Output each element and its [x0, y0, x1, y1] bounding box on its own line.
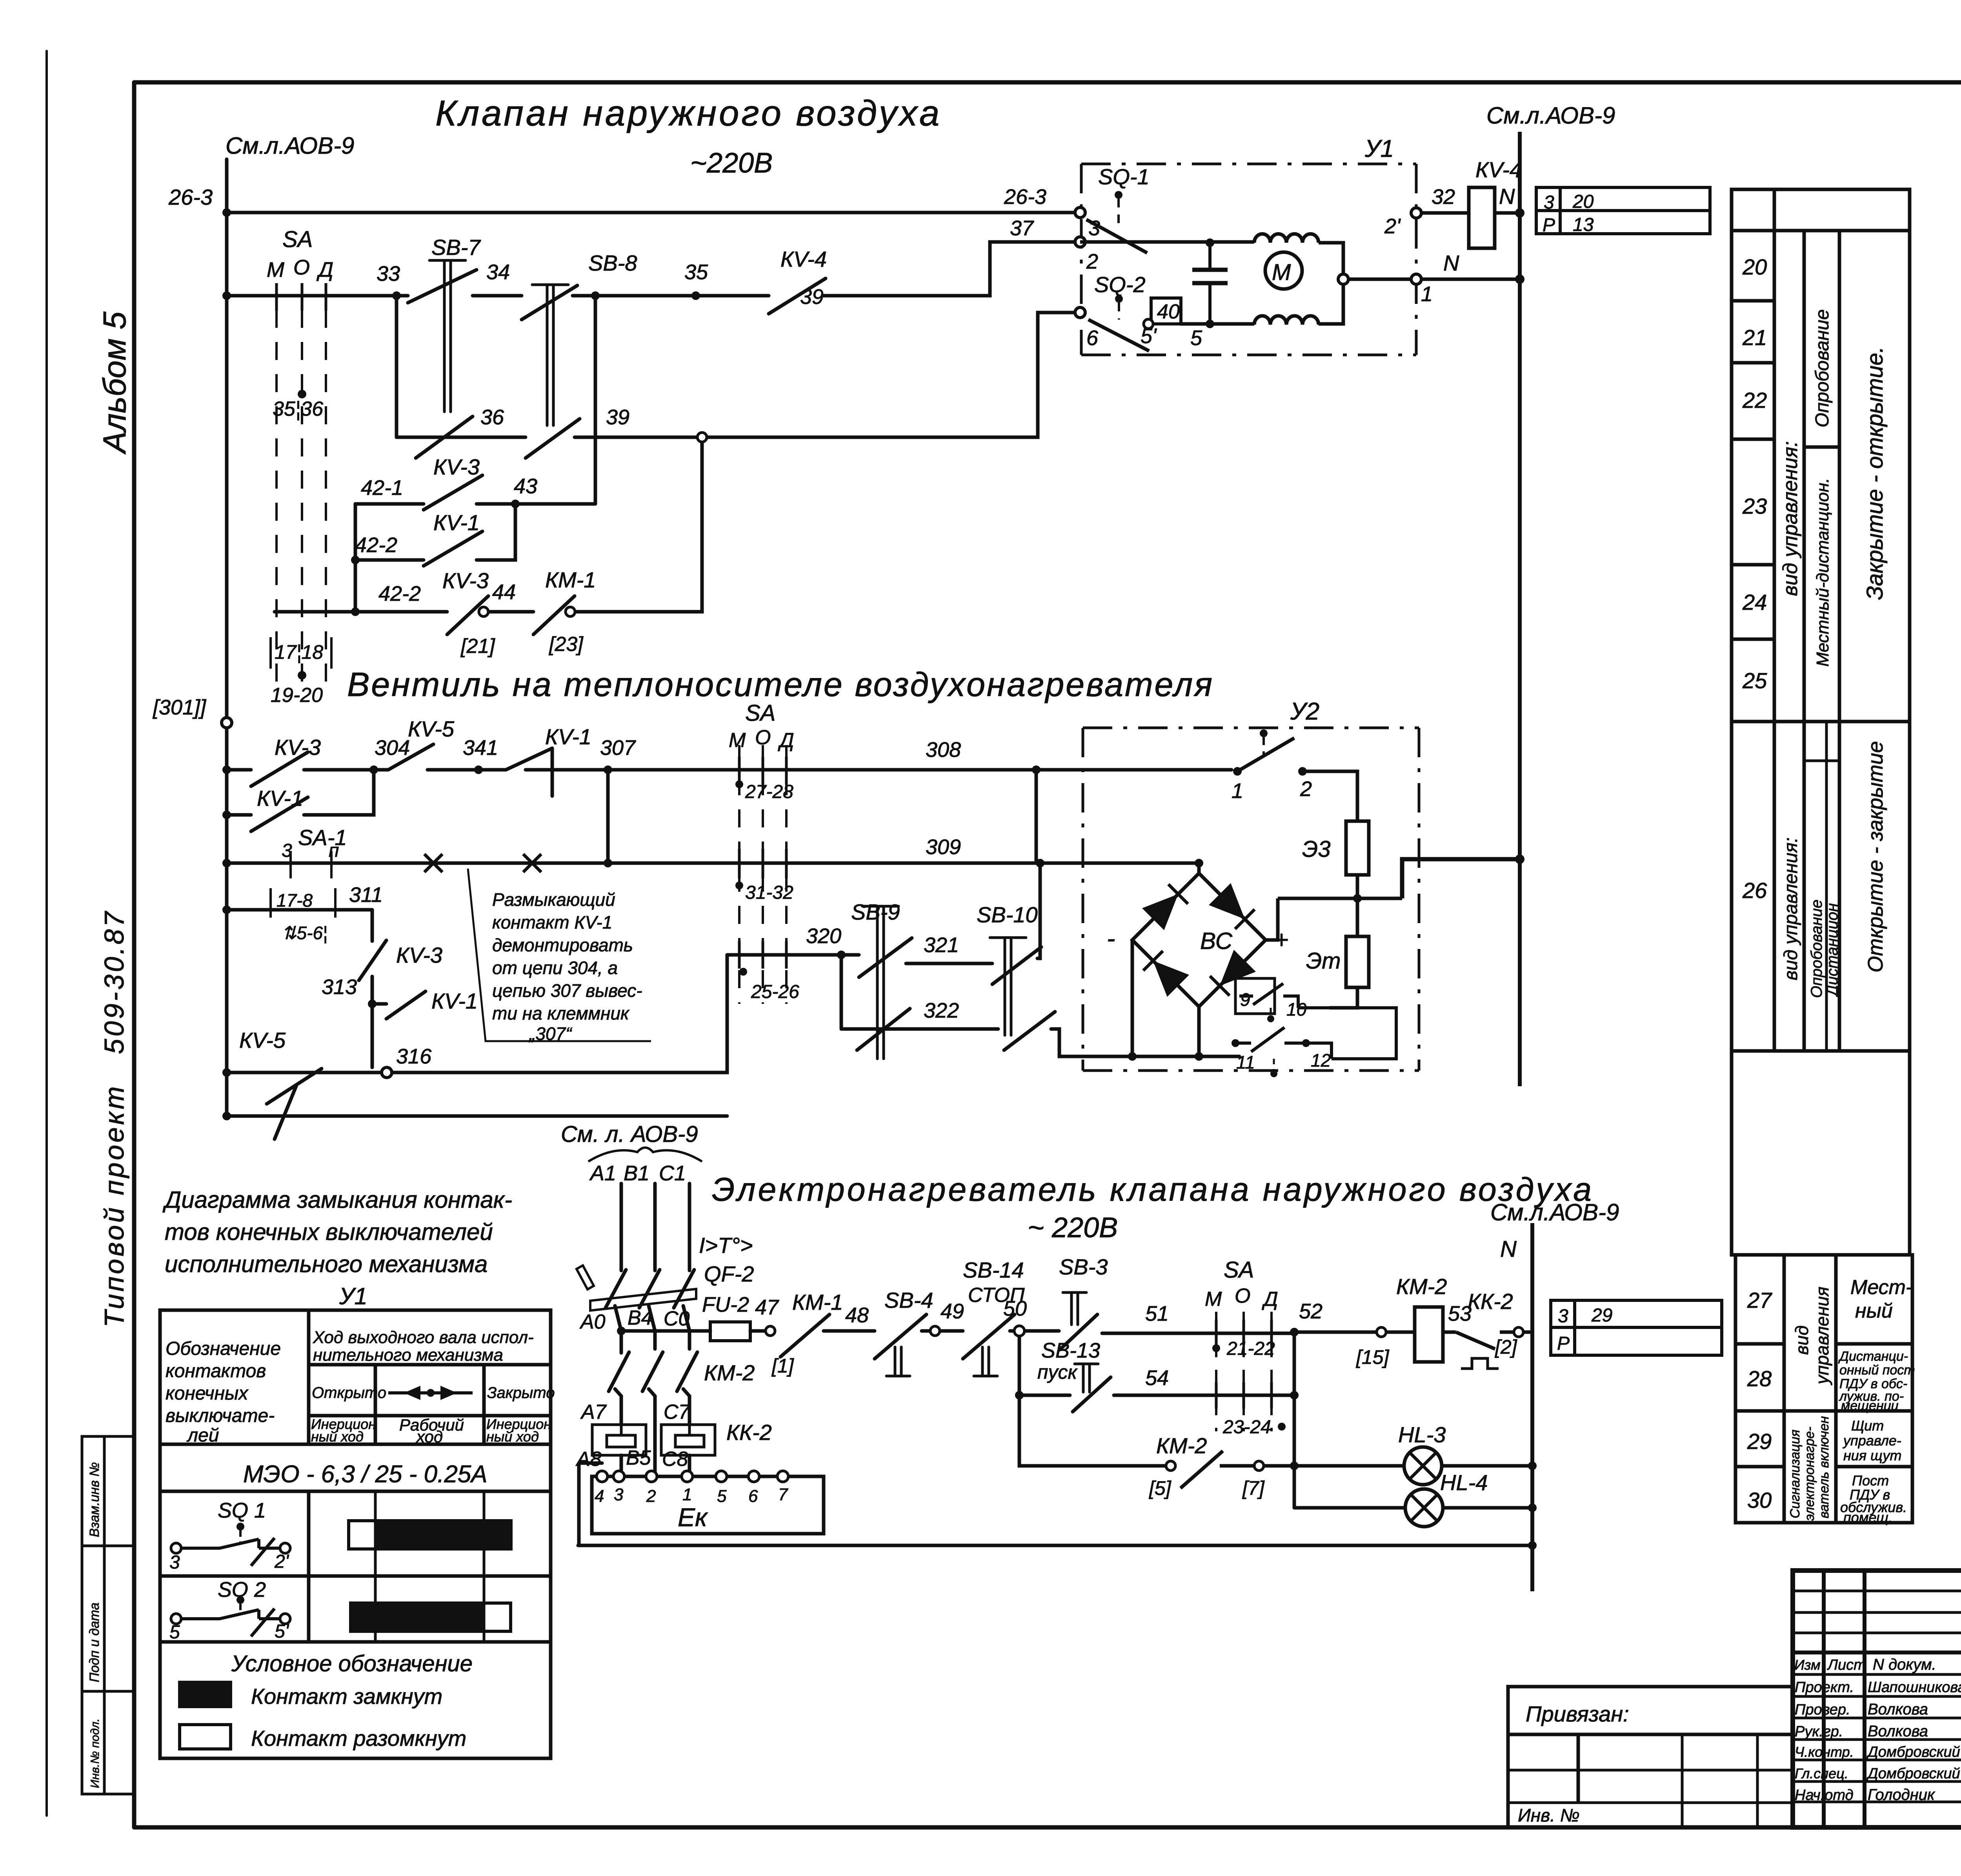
lamp HL-3 [1404, 1447, 1442, 1485]
band section 26 [1732, 722, 1910, 1051]
wire KM-2 coil row [1294, 1331, 1415, 1334]
svg-text:С8: С8 [662, 1448, 688, 1471]
heater box Ек [592, 1476, 824, 1534]
selector SA dashed column M [275, 310, 278, 686]
svg-text:исполнительного механизма: исполнительного механизма [165, 1251, 488, 1277]
sidebar stamp box Подп и дата [82, 1546, 104, 1691]
svg-text:С1: С1 [659, 1162, 686, 1185]
junction N/bottom wire [1528, 1541, 1537, 1550]
svg-text:17-8: 17-8 [277, 890, 313, 911]
svg-text:3: 3 [1088, 216, 1100, 240]
node 316 circle [382, 1067, 392, 1078]
lamp HL-4 [1405, 1489, 1443, 1527]
svg-text:КV-4: КV-4 [1475, 157, 1522, 182]
contact KV-1 branch [372, 991, 426, 1019]
bridge diode 2 [1209, 883, 1245, 919]
svg-text:Рук.гр.: Рук.гр. [1795, 1723, 1843, 1740]
svg-text:-: - [1107, 924, 1115, 953]
button SB-13 actuator [1075, 1364, 1098, 1392]
svg-text:42-2: 42-2 [355, 533, 397, 557]
svg-text:Взам.инв №: Взам.инв № [87, 1462, 102, 1537]
svg-text:304: 304 [375, 736, 410, 760]
button SB-4 actuator [886, 1347, 910, 1376]
wire bridge right vertex to junction row [1266, 898, 1278, 940]
svg-text:5': 5' [275, 1621, 289, 1642]
pole C heater to terminal [688, 1455, 691, 1471]
svg-text:52: 52 [1299, 1300, 1322, 1323]
svg-text:2: 2 [1086, 250, 1098, 273]
svg-text:25-26: 25-26 [751, 982, 799, 1002]
svg-text:HL-4: HL-4 [1440, 1470, 1488, 1495]
svg-text:12: 12 [1311, 1050, 1331, 1071]
svg-text:341: 341 [463, 736, 498, 760]
svg-text:30: 30 [1747, 1488, 1772, 1512]
svg-text:35: 35 [684, 260, 708, 284]
svg-text:321: 321 [924, 933, 959, 957]
svg-text:Электронагреватель клапана нар: Электронагреватель клапана наружного воз… [712, 1171, 1594, 1208]
legend open contact [180, 1725, 231, 1749]
wire row 316 [227, 1071, 382, 1074]
node 320 [837, 951, 846, 959]
wire node2 to Э3 [1302, 771, 1357, 821]
svg-text:от цепи 304, а: от цепи 304, а [492, 958, 618, 978]
wire row 42-2 / KV-1 [355, 558, 424, 562]
svg-text:21: 21 [1742, 325, 1767, 350]
wire 37 jog up [824, 242, 1075, 296]
svg-text:ватель включен: ватель включен [1817, 1416, 1832, 1518]
svg-text:Закрыто: Закрыто [487, 1384, 555, 1402]
contact SB-10 upper slash [992, 947, 1041, 984]
contact SB-4 slash [875, 1314, 926, 1359]
wire 51 [1102, 1332, 1294, 1335]
junction 52/54 [1290, 1391, 1299, 1400]
wire 39 long segment [575, 313, 1076, 437]
reference box 3-20 P-13 [1536, 187, 1710, 234]
pole A KM-2 to heater [615, 1389, 621, 1425]
svg-text:N: N [1443, 251, 1459, 275]
wire 34 segment [473, 294, 522, 298]
wire segment to node 35 [573, 294, 769, 298]
svg-text:N: N [1500, 1236, 1517, 1262]
svg-text:КV-5: КV-5 [408, 716, 455, 741]
wire row SA-1 / 309 [227, 862, 1199, 865]
svg-text:⇅5-6¦: ⇅5-6¦ [282, 923, 327, 943]
svg-text:лей: лей [186, 1425, 219, 1446]
wire to node 307 [526, 768, 608, 772]
svg-text:31-32: 31-32 [745, 882, 793, 903]
SA-1 tick marks [291, 851, 331, 878]
svg-text:Пост: Пост [1852, 1472, 1889, 1489]
contact KM-1 slash [533, 596, 575, 634]
riser 313 to 316 [371, 1004, 374, 1067]
svg-text:Эт: Эт [1306, 948, 1341, 974]
motor lower winding [1254, 316, 1319, 325]
svg-text:3: 3 [1544, 192, 1554, 213]
svg-text:3: 3 [614, 1485, 624, 1504]
contact У2 slash 1-2 [1237, 738, 1294, 771]
svg-text:Обозначение: Обозначение [166, 1338, 281, 1359]
note leader line [468, 869, 651, 1041]
svg-text:Размыкающий: Размыкающий [492, 889, 615, 910]
svg-text:2: 2 [646, 1487, 656, 1506]
svg-text:См.л.АОВ-9: См.л.АОВ-9 [1486, 102, 1615, 129]
svg-text:SB-9: SB-9 [851, 900, 900, 924]
wire 44 segment [488, 610, 533, 614]
contact SB-3 slash [1060, 1314, 1097, 1350]
svg-text:39: 39 [606, 405, 629, 429]
svg-text:27-28: 27-28 [745, 782, 793, 802]
contact KV-5 slash [388, 744, 433, 770]
contact SB-8 lower (NO) slash [526, 419, 580, 458]
bottom N wire [578, 1544, 1532, 1547]
svg-text:20: 20 [1742, 254, 1767, 279]
N bus (circuit 3) [1530, 1223, 1534, 1591]
svg-text:М: М [1272, 260, 1291, 285]
svg-text:4: 4 [595, 1487, 604, 1506]
breaker QF-2 tie bar [590, 1289, 696, 1311]
svg-text:2': 2' [1384, 215, 1401, 238]
terminal circle 15 [1377, 1327, 1386, 1337]
svg-text:См.л.АОВ-9: См.л.АОВ-9 [226, 133, 354, 159]
contact KM-1 slash (main row) [780, 1314, 830, 1357]
wire to node 304 [304, 768, 388, 772]
right bus См.л.АОВ-9 [1518, 132, 1522, 1086]
wire row 36-39 [397, 436, 526, 439]
svg-text:[23]: [23] [549, 633, 584, 656]
breaker QF-2 pole C slash [674, 1270, 694, 1308]
svg-text:29: 29 [1591, 1305, 1612, 1326]
junction dot Эт top [1353, 894, 1362, 903]
svg-text:3: 3 [169, 1552, 180, 1573]
svg-text:МЭО - 6,3 / 25 - 0.25А: МЭО - 6,3 / 25 - 0.25А [243, 1461, 488, 1488]
wire 320 drop to 322 [840, 955, 843, 1029]
wire 50 to SB-3 [1010, 1329, 1059, 1333]
svg-text:SB-8: SB-8 [588, 251, 637, 275]
svg-text:ный: ный [1855, 1300, 1893, 1322]
terminal circle 49 [930, 1326, 940, 1336]
junction bus/feeder [222, 1112, 231, 1120]
svg-text:6: 6 [748, 1487, 758, 1506]
svg-text:конечных: конечных [166, 1383, 249, 1404]
contact SB-13 slash [1073, 1377, 1111, 1412]
svg-text:КК-2: КК-2 [726, 1420, 772, 1445]
svg-text:21-22: 21-22 [1226, 1338, 1275, 1359]
svg-text:О: О [1235, 1285, 1250, 1307]
terminal circle 47 [766, 1326, 775, 1336]
svg-text:А8: А8 [575, 1448, 602, 1471]
svg-text:Клапан наружного воздуха: Клапан наружного воздуха [435, 93, 942, 133]
contactor KM-2 pole B slash [642, 1352, 663, 1391]
svg-text:Ход выходного вала испол-: Ход выходного вала испол- [313, 1328, 534, 1347]
wire 48 [824, 1329, 875, 1333]
row line 20/21 [1732, 299, 1774, 303]
node after SB-8 [591, 291, 600, 300]
terminal circle 5 [1166, 1461, 1175, 1471]
svg-text:HL-3: HL-3 [1398, 1422, 1446, 1447]
svg-text:27: 27 [1747, 1288, 1772, 1312]
svg-text:Инв.№ подл.: Инв.№ подл. [89, 1718, 102, 1788]
svg-text:320: 320 [806, 924, 841, 948]
junction A0 [617, 1327, 626, 1335]
svg-text:SB-14: SB-14 [963, 1258, 1024, 1282]
header row line [1793, 1651, 1961, 1654]
row line 22/23 [1732, 438, 1774, 441]
feeder pole A1 [620, 1183, 623, 1271]
wire KV-4 to bus [1495, 211, 1520, 215]
breaker QF-2 pole B slash [639, 1270, 660, 1308]
pole A down from main row [620, 1331, 623, 1353]
svg-text:контактов: контактов [166, 1361, 266, 1382]
svg-text:С7: С7 [664, 1401, 691, 1423]
brace over A1 B1 C1 [588, 1148, 702, 1162]
svg-text:Голодник: Голодник [1868, 1786, 1936, 1803]
svg-text:Ч.контр.: Ч.контр. [1795, 1744, 1854, 1760]
svg-text:выключате-: выключате- [166, 1405, 275, 1426]
svg-text:316: 316 [396, 1045, 432, 1068]
SQ2 state bar [351, 1603, 482, 1631]
button SB-7 actuator [429, 260, 466, 412]
svg-text:309: 309 [926, 835, 961, 859]
pole C down [683, 1306, 689, 1349]
contact KM-2 aux slash [1181, 1451, 1223, 1488]
svg-text:ход: ход [416, 1427, 443, 1446]
breaker QF-2 pole A slash [606, 1270, 626, 1308]
svg-text:6: 6 [1086, 326, 1099, 350]
svg-text:КV-3: КV-3 [433, 454, 480, 479]
sidebar stamp box Инв № подл [82, 1691, 104, 1794]
motor upper winding [1254, 234, 1319, 243]
bridge diode 1 [1142, 894, 1178, 930]
svg-text:КV-4: КV-4 [780, 247, 827, 271]
svg-text:Диаграмма замыкания контак-: Диаграмма замыкания контак- [162, 1187, 512, 1213]
junction 52/HL-3 [1290, 1462, 1299, 1470]
svg-text:307: 307 [600, 736, 636, 760]
svg-text:Альбом 5: Альбом 5 [97, 311, 133, 455]
svg-text:КV-1: КV-1 [431, 989, 478, 1013]
pole C KM-2 to heater [683, 1389, 689, 1425]
node 301 circle [222, 718, 232, 728]
header text Обозначение контактов конечных выключателей [166, 1338, 281, 1446]
junction N/HL-4 [1528, 1503, 1537, 1512]
terminal 4 hook [579, 1463, 602, 1545]
terminal circle 44 [479, 607, 488, 616]
contact SB-7 (NC) slash [408, 270, 477, 303]
svg-text:У2: У2 [1290, 698, 1319, 725]
row line 21/22 [1732, 361, 1774, 365]
button SB-14 actuator [974, 1347, 997, 1376]
wire 316 to corner [392, 955, 727, 1073]
contact KK-2 thermal [1443, 1332, 1514, 1349]
svg-text:вид управления:: вид управления: [1781, 837, 1801, 980]
wire row 2 to motor winding [1080, 240, 1254, 244]
demount X mark 1 [424, 854, 442, 872]
button SB-8 actuator [532, 285, 568, 425]
junction dot bus at 543 [1515, 208, 1524, 218]
node 304 [369, 765, 378, 774]
svg-text:SB-3: SB-3 [1059, 1254, 1108, 1279]
svg-text:Провер.: Провер. [1795, 1701, 1850, 1718]
contactor KM-2 pole A slash [609, 1352, 629, 1391]
svg-text:ния щут: ния щут [1843, 1447, 1901, 1463]
pole B down [649, 1306, 655, 1349]
box 40 [1151, 298, 1181, 324]
node 341 [474, 765, 483, 774]
svg-text:QF-2: QF-2 [704, 1262, 754, 1286]
motor terminal circle [1338, 274, 1348, 284]
svg-text:22: 22 [1742, 388, 1767, 413]
wire to riser 1790 [575, 442, 702, 612]
svg-text:3: 3 [1558, 1306, 1568, 1327]
heater KK-2 element A [592, 1425, 646, 1455]
svg-text:В5: В5 [626, 1447, 651, 1469]
relay coil KV-4 [1469, 187, 1495, 248]
svg-text:19-20: 19-20 [271, 684, 323, 707]
node circle 39 riser top [697, 433, 707, 442]
svg-text:[7]: [7] [1242, 1477, 1265, 1499]
wire lower winding to corner [1319, 284, 1343, 324]
wire N row from motor [1348, 278, 1520, 281]
motor M [1265, 252, 1302, 289]
wire left riser 42-1/42-2 [354, 504, 357, 612]
svg-text:SA: SA [745, 700, 775, 726]
wire branch node35 down to row 43 [594, 296, 597, 504]
terminal circle at 40 [1144, 319, 1153, 329]
svg-text:SB-13: SB-13 [1041, 1339, 1100, 1362]
svg-text:7: 7 [778, 1485, 788, 1504]
feeder pole C1 [688, 1183, 691, 1271]
sidebar stamp box Взам.инв № [82, 1436, 104, 1546]
contact 9-10 [1239, 983, 1298, 1008]
button SB-10 actuator [990, 938, 1026, 1035]
wire KV-1 to riser 953 [304, 770, 374, 815]
junction 42-2 [351, 556, 360, 564]
svg-text:313: 313 [322, 975, 357, 999]
svg-text:FU-2: FU-2 [702, 1293, 749, 1316]
terminal circle 50 [1014, 1326, 1024, 1336]
SQ1 state bar [375, 1491, 484, 1642]
svg-text:1: 1 [1232, 779, 1243, 803]
inner col line 3 [1838, 231, 1841, 722]
svg-text:SB-4: SB-4 [884, 1288, 933, 1312]
junction 307/309 [604, 859, 612, 867]
svg-text:35¦36: 35¦36 [273, 398, 323, 420]
note text Размыкающий контакт [492, 889, 642, 1044]
svg-text:13: 13 [1573, 215, 1594, 235]
wire row 304 from bus [227, 768, 251, 772]
riser 308 to 309 [1035, 770, 1038, 863]
capacitor C [1208, 243, 1212, 324]
contact SB-7 lower (NO) slash [416, 416, 473, 458]
svg-text:Гл.спец.: Гл.спец. [1795, 1765, 1848, 1781]
junction dot bus 2191 [1515, 854, 1524, 864]
svg-text:М: М [729, 729, 746, 752]
junction bus/KV-1 [222, 811, 231, 819]
svg-text:Контакт замкнут: Контакт замкнут [251, 1684, 442, 1709]
wire 321 [906, 962, 992, 965]
svg-text:Д: Д [317, 258, 333, 282]
svg-text:контакт КV-1: контакт КV-1 [492, 912, 612, 933]
svg-text:А7: А7 [580, 1401, 607, 1423]
thermal element symbol [1461, 1358, 1499, 1369]
resistor Эт [1346, 936, 1369, 987]
svg-text:Мест-: Мест- [1850, 1276, 1912, 1299]
wire middle junction row [1278, 897, 1402, 900]
svg-text:Шапошникова: Шапошникова [1868, 1679, 1961, 1696]
svg-text:1: 1 [682, 1485, 692, 1504]
wire bridge top to 309 [1197, 863, 1201, 873]
svg-text:2: 2 [1300, 777, 1312, 801]
svg-text:51: 51 [1145, 1302, 1169, 1325]
contact KV-1 slash (341-307) [506, 748, 552, 796]
junction bus/316 [222, 1068, 231, 1077]
node 1 dot [1233, 767, 1242, 776]
demount X mark 2 [523, 854, 541, 872]
svg-text:SQ 1: SQ 1 [218, 1499, 266, 1522]
contact SB-14 slash [963, 1314, 1015, 1359]
wire 49 [922, 1329, 930, 1333]
svg-text:КМ-1: КМ-1 [545, 567, 596, 592]
contact KV-3 slash (row 44) [447, 596, 488, 634]
svg-text:КV-1: КV-1 [545, 724, 591, 749]
heater KK-2 element C [661, 1425, 715, 1455]
svg-text:SA: SA [1224, 1257, 1254, 1283]
contact KV-4 slash [769, 278, 826, 314]
wire row 42-1 / 43 [355, 502, 424, 506]
svg-text:Условное обозначение: Условное обозначение [231, 1651, 473, 1676]
svg-text:пуск: пуск [1037, 1361, 1078, 1383]
svg-text:М: М [267, 258, 284, 282]
svg-text:17¦18: 17¦18 [275, 641, 323, 664]
wire row 42-2 KV-3 44 KM-1 [275, 610, 447, 614]
svg-text:цепью 307 вывес-: цепью 307 вывес- [492, 980, 642, 1001]
МЭО table grid [160, 1310, 551, 1758]
wire bridge left vertex down [1131, 940, 1134, 1056]
svg-text:N: N [1499, 184, 1515, 209]
svg-text:308: 308 [926, 738, 961, 762]
junction dot SA 35-36 [298, 390, 306, 398]
svg-text:управления: управления [1812, 1287, 1832, 1385]
svg-text:5: 5 [169, 1622, 180, 1643]
svg-text:ВС: ВС [1200, 928, 1233, 954]
svg-text:Открыто: Открыто [312, 1384, 386, 1402]
svg-text:Привязан:: Привязан: [1526, 1701, 1629, 1726]
wire bottom inner row [1199, 1008, 1396, 1059]
wire: left bus vertical [225, 159, 229, 1116]
feeder pole B1 [653, 1183, 657, 1271]
svg-text:См. л. АОВ-9: См. л. АОВ-9 [561, 1122, 698, 1147]
wire HL-3 to bus [1442, 1464, 1532, 1468]
svg-text:Волкова: Волкова [1868, 1723, 1928, 1740]
svg-text:Нач.отд: Нач.отд [1795, 1787, 1854, 1803]
tick marks 17-18 [271, 637, 331, 669]
wire 54 right [1114, 1394, 1294, 1397]
svg-text:КV-3: КV-3 [442, 568, 489, 593]
circuit3 SA dashed columns [1216, 1312, 1272, 1431]
junction N/HL-3 [1528, 1462, 1537, 1470]
wire row 33-34-35 from bus [227, 294, 408, 298]
wire bridge bottom vertex down [1197, 1007, 1201, 1056]
svg-text:КV-3: КV-3 [396, 943, 442, 967]
svg-text:Щит: Щит [1851, 1418, 1884, 1434]
SA tick marks on wire [277, 283, 326, 311]
row line top small [1732, 229, 1910, 233]
svg-text:КМ-2: КМ-2 [1396, 1274, 1447, 1299]
svg-text:SQ-1: SQ-1 [1098, 164, 1150, 189]
svg-text:ный ход: ный ход [311, 1429, 364, 1445]
contact У2-1 actuator dot [1260, 729, 1268, 737]
svg-text:Э3: Э3 [1302, 836, 1331, 862]
svg-text:Сигнализация: Сигнализация [1788, 1430, 1803, 1518]
